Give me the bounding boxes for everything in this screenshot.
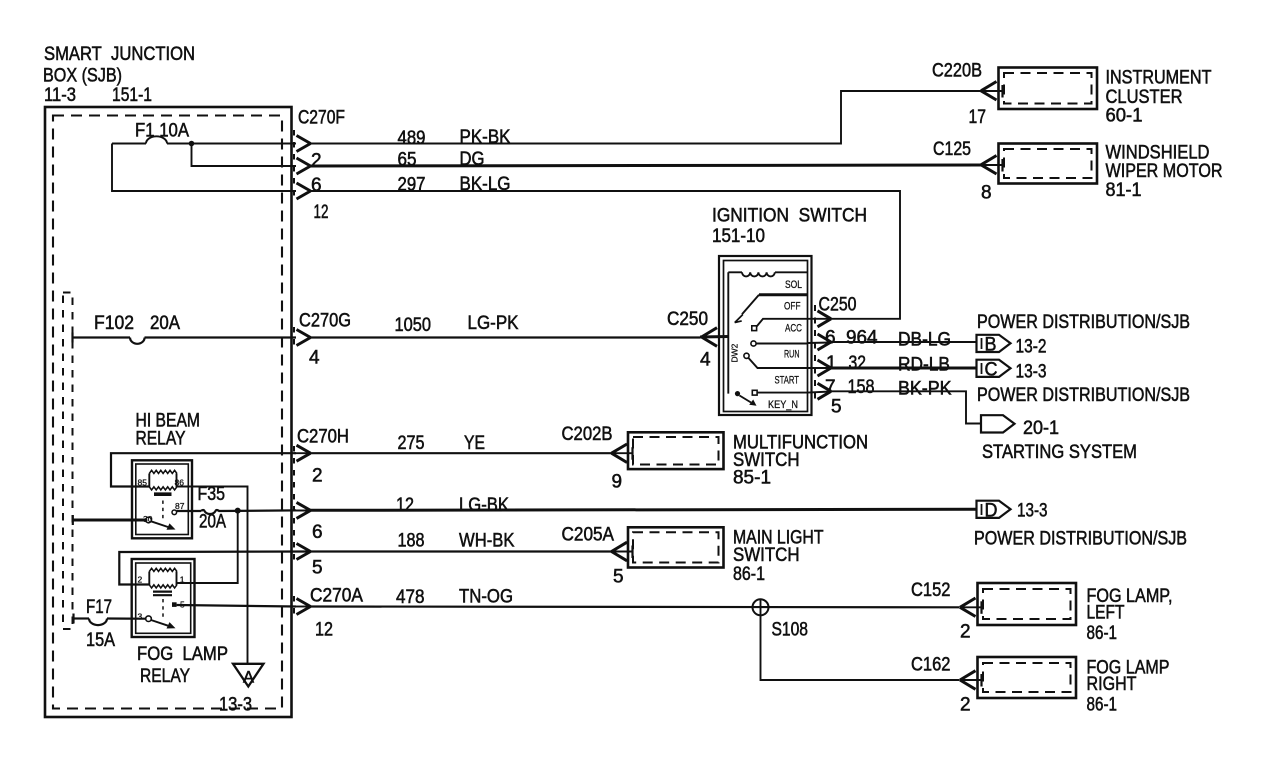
svg-text:297: 297	[398, 175, 426, 196]
wire 65 DG	[311, 149, 982, 171]
ground A	[233, 664, 264, 687]
windshield wiper motor connector box	[999, 143, 1223, 202]
svg-text:32: 32	[849, 353, 867, 374]
svg-text:1050: 1050	[395, 315, 432, 336]
hi beam relay label	[136, 411, 201, 450]
svg-text:20A: 20A	[199, 512, 226, 533]
wire 297 BK-LG	[311, 174, 901, 319]
fog lamp relay label	[137, 644, 228, 687]
svg-text:RD-LB: RD-LB	[898, 355, 950, 376]
SJB header text	[43, 44, 195, 106]
svg-text:3: 3	[138, 612, 143, 622]
pentagon connector D	[977, 501, 1048, 522]
wire 158 BK-PK	[831, 377, 981, 424]
wire hi beam 30 feed	[73, 515, 146, 525]
svg-text:C250: C250	[819, 295, 857, 316]
hi beam relay box	[132, 460, 192, 538]
svg-text:13-3: 13-3	[1017, 501, 1048, 522]
ignition KEY_IN contact and arm	[735, 390, 808, 406]
svg-text:C205A: C205A	[562, 525, 615, 546]
svg-text:9: 9	[612, 472, 623, 493]
fuse F35 20A	[177, 484, 296, 533]
connector C250 left arrow pin 4	[667, 309, 717, 371]
svg-text:6: 6	[311, 175, 322, 196]
svg-text:7: 7	[825, 377, 836, 398]
svg-text:C162: C162	[911, 655, 951, 676]
svg-text:RUN: RUN	[784, 349, 800, 361]
svg-text:YE: YE	[464, 433, 485, 454]
fog lamp relay coil	[149, 568, 177, 595]
svg-text:2: 2	[960, 695, 971, 716]
wire 478 TN-OG	[177, 587, 960, 609]
hi beam relay pin labels	[138, 478, 185, 525]
wire coil 86 to ground riser	[177, 487, 248, 664]
svg-text:LG-BK: LG-BK	[459, 495, 509, 516]
svg-text:12: 12	[314, 202, 329, 223]
splice S108	[753, 599, 960, 680]
svg-text:4: 4	[309, 348, 320, 369]
svg-text:S108: S108	[772, 620, 809, 641]
pentagon connector C	[977, 360, 1047, 383]
svg-text:489: 489	[398, 128, 426, 149]
svg-text:DG: DG	[460, 149, 485, 170]
ignition switch box	[719, 256, 812, 415]
svg-text:C250: C250	[667, 309, 708, 330]
svg-text:1: 1	[180, 575, 185, 585]
svg-text:65: 65	[398, 150, 417, 171]
fog lamp left connector box	[978, 583, 1173, 644]
connector C202B arrow pin 9	[562, 424, 634, 493]
ignition ACC contact	[752, 319, 808, 331]
connector C270A pin 12	[294, 586, 363, 641]
svg-text:C270G: C270G	[299, 311, 351, 332]
svg-text:POWER DISTRIBUTION/SJB: POWER DISTRIBUTION/SJB	[974, 529, 1187, 550]
svg-text:SMART JUNCTION: SMART JUNCTION	[44, 44, 195, 65]
main light switch connector box	[628, 527, 824, 585]
connector C270F pins	[294, 108, 345, 224]
fog relay pin labels	[138, 575, 186, 622]
svg-text:F102: F102	[94, 313, 134, 334]
svg-text:12: 12	[315, 620, 333, 641]
fuse F17 15A	[74, 597, 146, 651]
svg-text:C270H: C270H	[297, 427, 349, 448]
svg-text:F17: F17	[86, 597, 112, 618]
svg-text:60-1: 60-1	[1106, 106, 1143, 127]
svg-text:SOL: SOL	[785, 279, 802, 291]
fog lamp right connector box	[978, 657, 1170, 716]
wire 188 WH-BK	[119, 531, 611, 585]
fuse F1 10A	[112, 121, 296, 144]
wire 489 PK-BK	[311, 91, 982, 149]
svg-text:KEY_N: KEY_N	[768, 399, 798, 411]
svg-text:C152: C152	[911, 580, 951, 601]
svg-text:C270F: C270F	[298, 108, 345, 129]
svg-text:WIPER MOTOR: WIPER MOTOR	[1106, 161, 1223, 182]
svg-text:POWER DISTRIBUTION/SJB: POWER DISTRIBUTION/SJB	[977, 385, 1190, 406]
svg-text:C270A: C270A	[310, 586, 363, 607]
connector C270H pins 2 6 5	[294, 427, 349, 579]
instrument cluster connector box	[999, 68, 1212, 127]
svg-text:C: C	[985, 360, 998, 381]
svg-text:2: 2	[311, 151, 322, 172]
ignition OFF wire	[759, 293, 808, 296]
connector C250 right pins	[808, 295, 857, 418]
svg-text:6: 6	[825, 328, 836, 349]
fog relay armature	[146, 599, 177, 629]
svg-text:13-3: 13-3	[1016, 362, 1047, 383]
connector C220B arrow pin 17	[932, 61, 1003, 129]
svg-text:C125: C125	[933, 139, 971, 160]
svg-text:TN-OG: TN-OG	[459, 587, 513, 608]
svg-text:85-1: 85-1	[733, 468, 771, 489]
svg-text:4: 4	[700, 350, 711, 371]
svg-text:81-1: 81-1	[1106, 180, 1142, 201]
pentagon connector starting system	[981, 415, 1059, 439]
wire 1050 LG-PK	[311, 313, 729, 338]
wire 12 LG-BK	[311, 495, 977, 516]
hi beam relay coil	[149, 470, 177, 494]
svg-text:275: 275	[398, 433, 425, 454]
svg-text:12: 12	[396, 495, 414, 516]
svg-text:20A: 20A	[150, 313, 180, 334]
fog lamp relay box	[132, 559, 195, 637]
svg-text:5: 5	[312, 558, 323, 579]
svg-text:BK-LG: BK-LG	[460, 174, 511, 195]
wire branch to pin 2	[192, 144, 297, 167]
connector C205A arrow pin 5	[562, 525, 634, 588]
svg-text:F35: F35	[198, 484, 226, 505]
hi beam relay armature	[146, 501, 177, 530]
svg-text:87: 87	[175, 501, 185, 511]
svg-text:ACC: ACC	[785, 323, 802, 335]
connector C270G pin 4	[294, 311, 351, 369]
svg-text:13-3: 13-3	[219, 695, 252, 716]
ignition left bus wire	[727, 272, 729, 393]
wire 32 RD-LB	[831, 353, 977, 376]
svg-text:DB-LG: DB-LG	[898, 330, 951, 351]
wire branch to pin 6	[112, 144, 296, 192]
multifunction switch connector box	[628, 432, 868, 488]
svg-text:OFF: OFF	[784, 301, 801, 313]
svg-text:A: A	[243, 669, 254, 687]
svg-text:86-1: 86-1	[733, 564, 765, 585]
connector C125 arrow pin 8	[933, 139, 1003, 204]
svg-text:INSTRUMENT: INSTRUMENT	[1106, 68, 1212, 89]
SJB internal bus strip	[63, 293, 73, 630]
svg-text:RIGHT: RIGHT	[1087, 674, 1137, 695]
svg-text:SWITCH: SWITCH	[733, 545, 800, 566]
svg-text:964: 964	[846, 328, 878, 349]
svg-text:20-1: 20-1	[1023, 418, 1059, 439]
svg-text:PK-BK: PK-BK	[460, 127, 511, 148]
svg-text:LEFT: LEFT	[1087, 603, 1125, 624]
svg-text:IGNITION SWITCH: IGNITION SWITCH	[712, 206, 867, 227]
svg-text:8: 8	[981, 183, 992, 204]
svg-text:BOX (SJB): BOX (SJB)	[43, 66, 122, 87]
wire multifunction to coil 85	[111, 453, 296, 486]
svg-text:DW2: DW2	[730, 343, 740, 362]
svg-text:158: 158	[848, 377, 875, 398]
svg-text:188: 188	[398, 531, 425, 552]
pentagon connector B	[977, 335, 1047, 358]
svg-text:86-1: 86-1	[1087, 623, 1118, 644]
svg-text:86-1: 86-1	[1087, 695, 1118, 716]
svg-text:RELAY: RELAY	[136, 429, 186, 450]
smart junction box SJB outline	[45, 107, 292, 717]
ignition switch coil	[728, 272, 807, 276]
svg-text:6: 6	[312, 522, 323, 543]
wire 275 YE	[311, 433, 612, 454]
svg-text:POWER DISTRIBUTION/SJB: POWER DISTRIBUTION/SJB	[977, 312, 1190, 333]
svg-text:5: 5	[613, 567, 624, 588]
svg-text:2: 2	[312, 466, 323, 487]
ignition START contact	[744, 353, 808, 368]
svg-text:STARTING SYSTEM: STARTING SYSTEM	[982, 442, 1137, 463]
fuse F102 20A	[73, 313, 297, 344]
svg-text:RELAY: RELAY	[140, 666, 190, 687]
ignition switch header	[712, 206, 867, 248]
svg-text:17: 17	[969, 107, 987, 128]
connector C152 arrow pin 2	[911, 580, 982, 643]
ignition position labels	[730, 279, 803, 411]
svg-text:LG-PK: LG-PK	[468, 313, 519, 334]
svg-text:START: START	[775, 375, 800, 387]
svg-text:151-10: 151-10	[712, 226, 765, 247]
svg-text:D: D	[985, 501, 998, 522]
svg-text:FOG LAMP: FOG LAMP	[137, 644, 228, 665]
svg-text:13-2: 13-2	[1016, 337, 1047, 358]
junction on F35 wire	[235, 508, 241, 514]
svg-text:2: 2	[960, 622, 971, 643]
svg-text:BK-PK: BK-PK	[898, 379, 952, 400]
svg-text:478: 478	[396, 587, 425, 608]
svg-text:5: 5	[831, 397, 842, 418]
junction on F1 wire	[189, 141, 195, 147]
svg-text:B: B	[985, 335, 997, 356]
svg-text:WH-BK: WH-BK	[459, 531, 515, 552]
svg-text:1: 1	[826, 353, 837, 374]
wire 964 DB-LG	[831, 328, 977, 351]
svg-text:11-3: 11-3	[44, 85, 76, 106]
connector C162 arrow pin 2	[911, 655, 982, 716]
svg-text:C202B: C202B	[562, 424, 613, 445]
ignition RUN contact	[751, 341, 808, 346]
svg-text:151-1: 151-1	[112, 85, 152, 106]
svg-text:C220B: C220B	[932, 61, 982, 82]
svg-text:15A: 15A	[86, 630, 115, 651]
svg-text:2: 2	[138, 575, 143, 585]
svg-text:F1 10A: F1 10A	[135, 121, 189, 142]
wire junction to fog relay coil 1	[177, 511, 238, 583]
ignition switch arm (OFF)	[735, 295, 759, 323]
